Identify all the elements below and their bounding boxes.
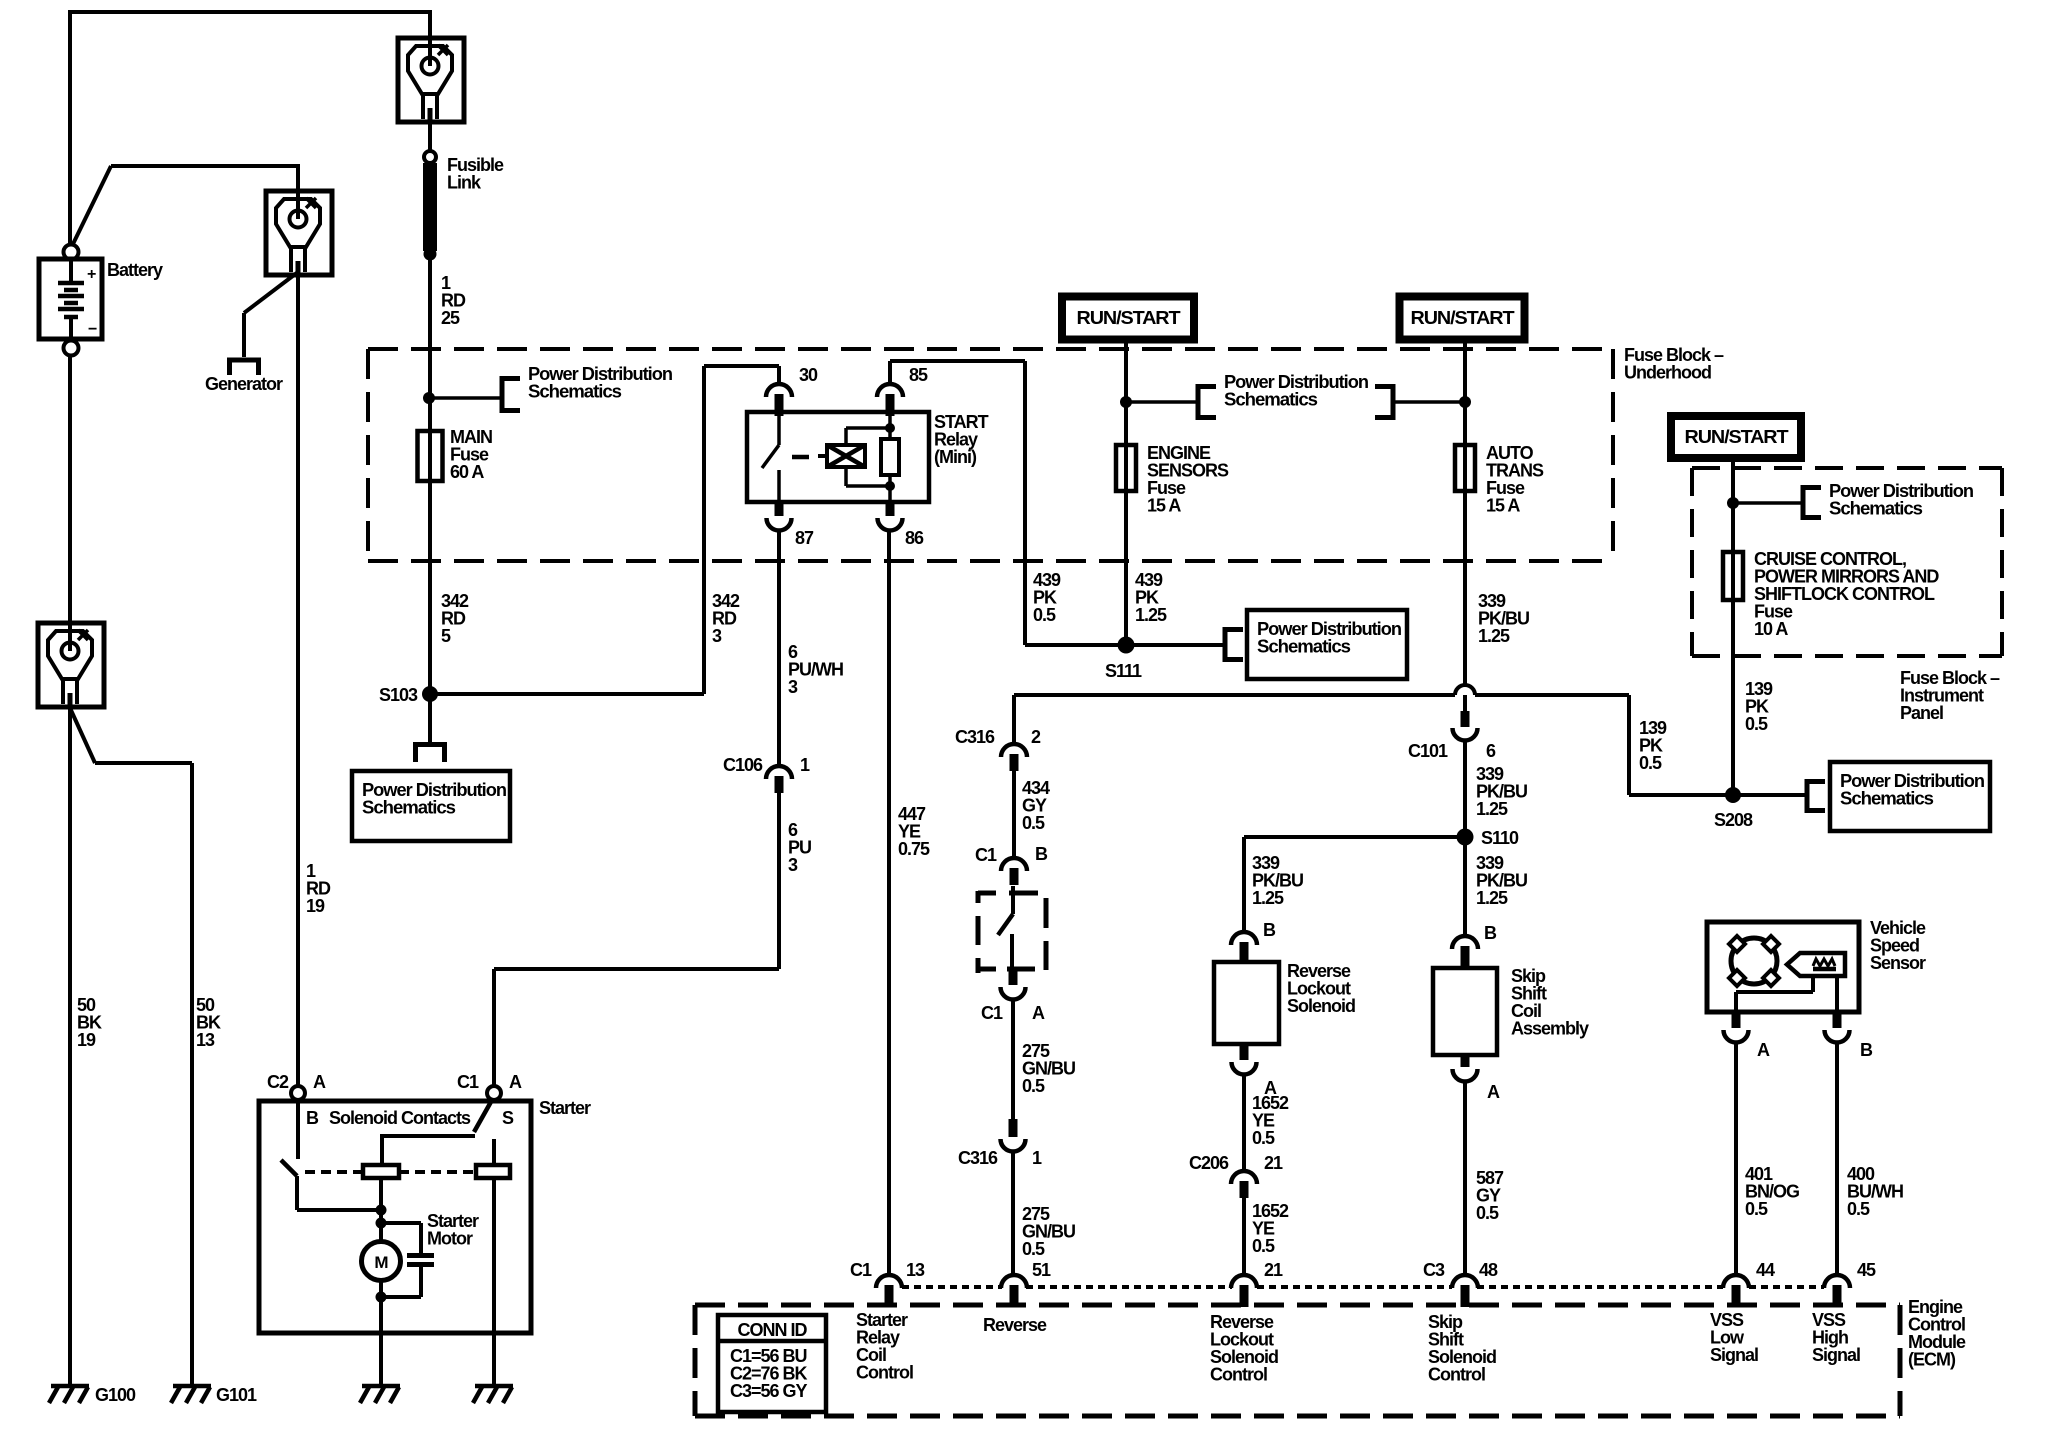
svg-text:3: 3 — [712, 626, 722, 646]
svg-text:19: 19 — [77, 1030, 96, 1050]
svg-text:Sensor: Sensor — [1870, 953, 1926, 973]
svg-text:Schematics: Schematics — [362, 798, 456, 818]
svg-text:−: − — [88, 321, 97, 338]
svg-text:Signal: Signal — [1812, 1345, 1860, 1365]
svg-text:Panel: Panel — [1900, 703, 1943, 723]
svg-text:C3: C3 — [1423, 1260, 1445, 1280]
svg-text:B: B — [306, 1108, 319, 1128]
svg-text:G100: G100 — [95, 1385, 136, 1405]
svg-text:15 A: 15 A — [1486, 496, 1520, 516]
svg-text:60 A: 60 A — [450, 462, 484, 482]
svg-text:+: + — [87, 266, 96, 283]
svg-text:85: 85 — [909, 365, 928, 385]
svg-text:RUN/START: RUN/START — [1077, 308, 1181, 328]
svg-text:Reverse: Reverse — [983, 1315, 1047, 1335]
svg-text:0.5: 0.5 — [1847, 1199, 1870, 1219]
svg-text:1: 1 — [1032, 1148, 1042, 1168]
svg-text:C3=56 GY: C3=56 GY — [730, 1381, 808, 1401]
svg-text:C1: C1 — [975, 845, 997, 865]
svg-text:45: 45 — [1857, 1260, 1876, 1280]
svg-text:Solenoid Contacts: Solenoid Contacts — [329, 1108, 471, 1128]
svg-text:Generator: Generator — [205, 374, 283, 394]
svg-text:Schematics: Schematics — [1829, 499, 1923, 519]
svg-text:A: A — [313, 1072, 326, 1092]
svg-text:0.75: 0.75 — [898, 839, 930, 859]
svg-text:Signal: Signal — [1710, 1345, 1758, 1365]
svg-text:RUN/START: RUN/START — [1685, 427, 1789, 447]
svg-text:S208: S208 — [1714, 810, 1753, 830]
svg-text:2: 2 — [1031, 727, 1041, 747]
svg-text:1.25: 1.25 — [1478, 626, 1510, 646]
svg-text:M: M — [374, 1253, 388, 1272]
svg-text:19: 19 — [306, 896, 325, 916]
svg-text:G101: G101 — [216, 1385, 257, 1405]
svg-text:Motor: Motor — [427, 1229, 473, 1249]
svg-text:C316: C316 — [958, 1148, 998, 1168]
svg-text:(ECM): (ECM) — [1908, 1350, 1956, 1370]
svg-text:B: B — [1484, 923, 1497, 943]
svg-text:(Mini): (Mini) — [934, 447, 977, 467]
svg-text:1.25: 1.25 — [1476, 799, 1508, 819]
svg-text:0.5: 0.5 — [1033, 605, 1056, 625]
svg-text:0.5: 0.5 — [1745, 1199, 1768, 1219]
svg-text:Assembly: Assembly — [1511, 1019, 1589, 1039]
svg-text:S103: S103 — [379, 685, 418, 705]
svg-text:13: 13 — [196, 1030, 215, 1050]
svg-text:21: 21 — [1264, 1260, 1283, 1280]
svg-text:6: 6 — [1486, 741, 1496, 761]
svg-text:25: 25 — [441, 308, 460, 328]
svg-text:B: B — [1035, 844, 1048, 864]
svg-text:0.5: 0.5 — [1252, 1128, 1275, 1148]
svg-text:C1: C1 — [457, 1072, 479, 1092]
svg-text:87: 87 — [795, 528, 814, 548]
svg-text:A: A — [1032, 1003, 1045, 1023]
svg-text:0.5: 0.5 — [1476, 1203, 1499, 1223]
svg-text:1: 1 — [800, 755, 810, 775]
svg-text:C101: C101 — [1408, 741, 1448, 761]
svg-text:Link: Link — [447, 173, 482, 193]
svg-text:Control: Control — [1210, 1365, 1267, 1385]
svg-text:CONN ID: CONN ID — [738, 1320, 808, 1340]
svg-text:A: A — [1757, 1040, 1770, 1060]
svg-text:S: S — [502, 1108, 514, 1128]
svg-text:Control: Control — [856, 1363, 913, 1383]
svg-text:1.25: 1.25 — [1476, 888, 1508, 908]
svg-text:30: 30 — [799, 365, 818, 385]
svg-text:Schematics: Schematics — [528, 382, 622, 402]
svg-text:21: 21 — [1264, 1153, 1283, 1173]
svg-text:B: B — [1263, 920, 1276, 940]
svg-text:10 A: 10 A — [1754, 619, 1788, 639]
svg-text:0.5: 0.5 — [1639, 753, 1662, 773]
svg-text:RUN/START: RUN/START — [1411, 308, 1515, 328]
svg-text:A: A — [509, 1072, 522, 1092]
svg-text:C206: C206 — [1189, 1153, 1229, 1173]
svg-text:B: B — [1860, 1040, 1873, 1060]
svg-text:C1: C1 — [981, 1003, 1003, 1023]
svg-text:13: 13 — [906, 1260, 925, 1280]
svg-text:44: 44 — [1756, 1260, 1775, 1280]
svg-text:A: A — [1487, 1082, 1500, 1102]
svg-text:0.5: 0.5 — [1022, 813, 1045, 833]
svg-text:C2: C2 — [267, 1072, 289, 1092]
svg-text:1.25: 1.25 — [1135, 605, 1167, 625]
svg-text:0.5: 0.5 — [1022, 1239, 1045, 1259]
svg-text:Starter: Starter — [539, 1098, 591, 1118]
svg-text:Schematics: Schematics — [1840, 789, 1934, 809]
svg-text:1.25: 1.25 — [1252, 888, 1284, 908]
svg-text:0.5: 0.5 — [1745, 714, 1768, 734]
svg-text:51: 51 — [1032, 1260, 1051, 1280]
svg-text:Control: Control — [1428, 1365, 1485, 1385]
svg-text:Schematics: Schematics — [1257, 637, 1351, 657]
svg-text:S111: S111 — [1105, 661, 1142, 681]
svg-text:S110: S110 — [1481, 828, 1519, 848]
svg-text:3: 3 — [788, 677, 798, 697]
svg-text:C1: C1 — [850, 1260, 872, 1280]
svg-text:48: 48 — [1479, 1260, 1498, 1280]
svg-text:C106: C106 — [723, 755, 763, 775]
svg-text:15 A: 15 A — [1147, 496, 1181, 516]
svg-text:Underhood: Underhood — [1624, 363, 1711, 383]
svg-text:0.5: 0.5 — [1022, 1076, 1045, 1096]
svg-text:Solenoid: Solenoid — [1287, 996, 1355, 1016]
svg-text:5: 5 — [441, 626, 451, 646]
svg-text:86: 86 — [905, 528, 924, 548]
svg-text:Battery: Battery — [107, 260, 163, 280]
svg-text:C316: C316 — [955, 727, 995, 747]
svg-text:Schematics: Schematics — [1224, 390, 1318, 410]
svg-text:3: 3 — [788, 855, 798, 875]
svg-text:0.5: 0.5 — [1252, 1236, 1275, 1256]
